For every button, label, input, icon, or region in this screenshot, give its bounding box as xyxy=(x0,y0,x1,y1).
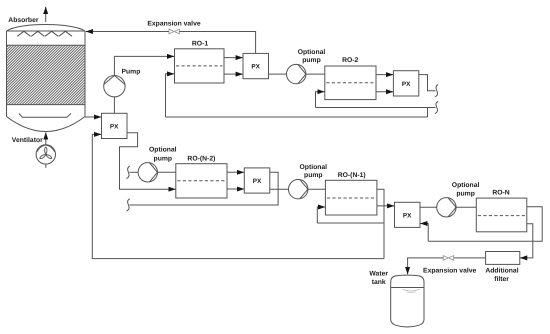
svg-text:RO-1: RO-1 xyxy=(192,40,208,47)
svg-text:PX: PX xyxy=(251,64,260,71)
svg-text:PX: PX xyxy=(253,178,262,185)
svg-text:RO-N: RO-N xyxy=(492,189,509,196)
svg-text:PX: PX xyxy=(403,212,412,219)
svg-text:Absorber: Absorber xyxy=(8,17,39,24)
svg-text:Expansion valve: Expansion valve xyxy=(147,21,200,28)
svg-text:Ventilator: Ventilator xyxy=(12,137,43,144)
svg-text:RO-2: RO-2 xyxy=(342,57,358,64)
svg-text:PX: PX xyxy=(110,124,119,131)
svg-text:Optional: Optional xyxy=(452,182,480,189)
svg-text:pump: pump xyxy=(304,172,323,179)
svg-text:Optional: Optional xyxy=(298,49,326,56)
svg-text:PX: PX xyxy=(402,81,411,88)
svg-text:RO-(N-2): RO-(N-2) xyxy=(187,155,215,162)
svg-text:Additional: Additional xyxy=(485,267,518,274)
svg-text:RO-(N-1): RO-(N-1) xyxy=(338,172,366,179)
svg-text:pump: pump xyxy=(456,190,475,197)
svg-text:pump: pump xyxy=(154,155,173,162)
svg-text:tank: tank xyxy=(372,279,386,286)
svg-text:pump: pump xyxy=(302,57,321,64)
svg-text:Water: Water xyxy=(369,271,388,278)
svg-text:filter: filter xyxy=(494,276,509,283)
svg-text:Optional: Optional xyxy=(300,164,328,171)
svg-text:Expansion valve: Expansion valve xyxy=(423,267,476,274)
svg-text:Optional: Optional xyxy=(149,147,177,154)
svg-text:Pump: Pump xyxy=(122,69,141,76)
